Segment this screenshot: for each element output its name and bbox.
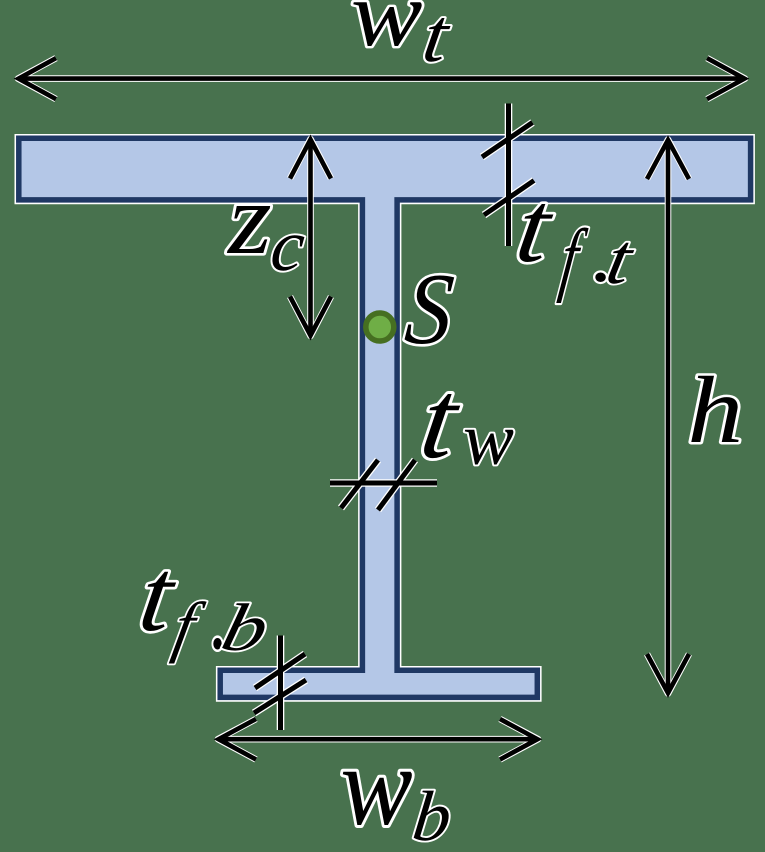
dimension arrow w_b (bottom, double-headed) <box>218 719 538 760</box>
thickness tick t_f.t <box>482 104 534 247</box>
svg-text:w: w <box>340 724 412 850</box>
I-beam cross-section <box>19 138 751 697</box>
thickness tick t_w <box>330 460 437 510</box>
dimension arrow h (right, vertical double-headed) <box>647 140 689 694</box>
dimension arrow z_c (vertical double-headed) <box>290 139 331 336</box>
thickness tick t_f.b <box>254 636 306 731</box>
dimension arrow w_t (top, double-headed) <box>18 58 745 99</box>
centroid dot S (green) <box>366 313 394 341</box>
svg-text:h: h <box>687 358 743 463</box>
svg-text:w: w <box>351 0 423 65</box>
svg-text:w: w <box>463 399 514 481</box>
svg-text:z: z <box>226 163 272 275</box>
